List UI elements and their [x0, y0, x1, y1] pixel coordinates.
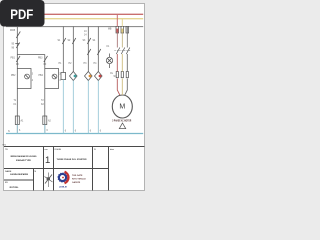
svg-text:PB3: PB3 — [38, 58, 43, 60]
svg-text:LEMLIK: LEMLIK — [59, 187, 68, 189]
svg-text:PB4: PB4 — [39, 75, 44, 77]
svg-text:GAYATE: GAYATE — [72, 181, 81, 184]
svg-text:PDF: PDF — [10, 7, 33, 22]
svg-text:PB2: PB2 — [11, 75, 16, 77]
svg-text:KITU TEKULE: KITU TEKULE — [72, 179, 86, 181]
svg-text:JHONN KNUPAZEN: JHONN KNUPAZEN — [10, 173, 28, 176]
svg-text:MCB: MCB — [10, 30, 16, 32]
svg-text:ESIGAR TYPE: ESIGAR TYPE — [16, 159, 31, 162]
svg-text:ISSUE: ISSUE — [55, 149, 62, 151]
svg-text:MB: MB — [108, 29, 112, 31]
svg-text:THREE PHASE DOL STARTER: THREE PHASE DOL STARTER — [57, 158, 88, 161]
svg-text:ROTVEL: ROTVEL — [10, 187, 20, 189]
svg-text:THE GATE: THE GATE — [72, 174, 83, 177]
svg-text:WIRING DIAGRAM OF HOLDING: WIRING DIAGRAM OF HOLDING — [11, 155, 37, 158]
svg-text:NAME: NAME — [5, 170, 12, 173]
svg-text:PB1: PB1 — [11, 58, 16, 60]
svg-text:M: M — [119, 103, 125, 110]
svg-text:3 PHASE AC MOTOR: 3 PHASE AC MOTOR — [112, 119, 131, 122]
svg-text:1: 1 — [45, 155, 50, 166]
